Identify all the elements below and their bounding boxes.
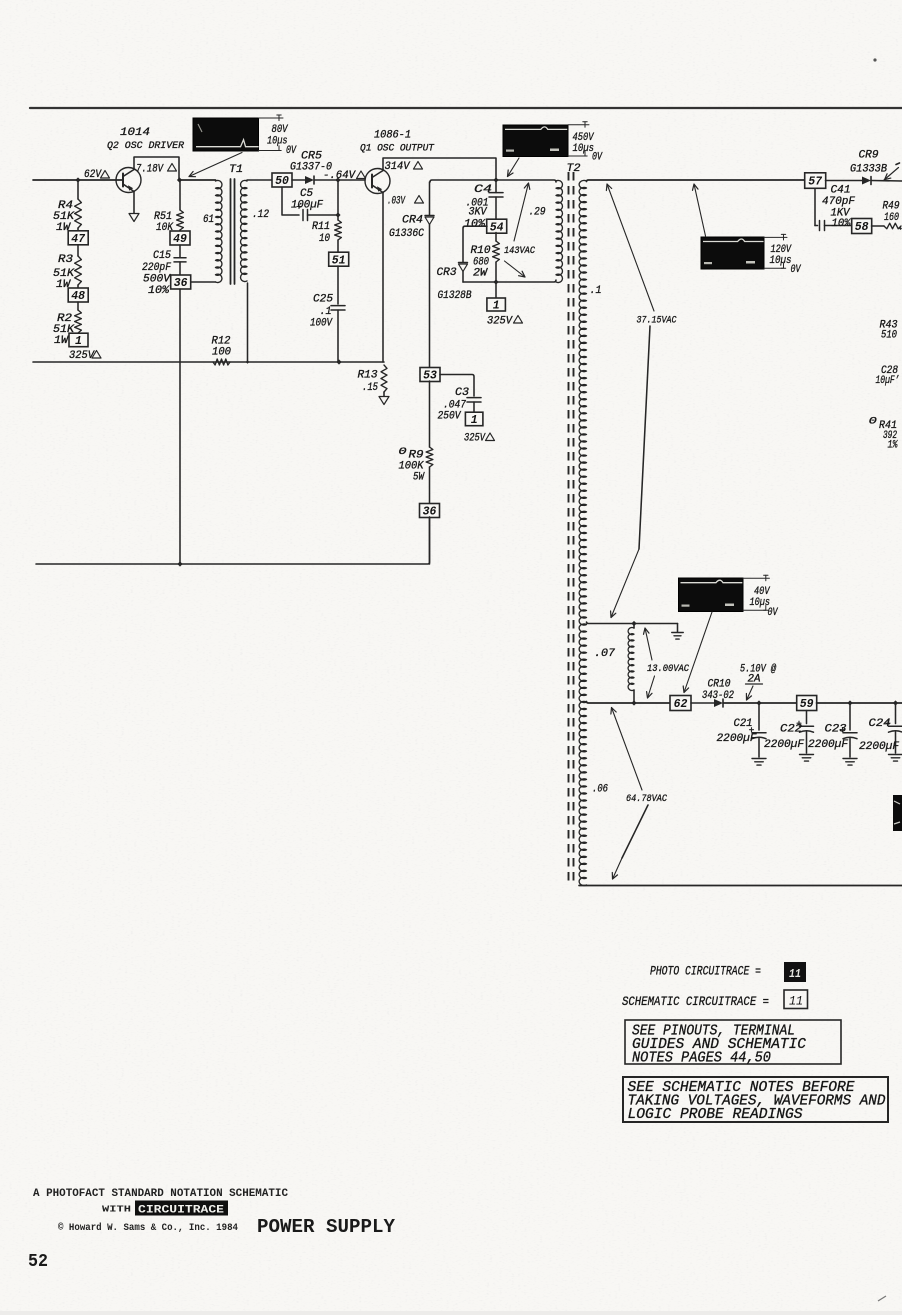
ground	[800, 754, 814, 756]
note box SEE PINOUTS	[625, 1020, 841, 1064]
junction node	[177, 177, 182, 182]
wire to T1 primary bottom	[191, 281, 216, 283]
svg-text:2200µF: 2200µF	[859, 741, 899, 753]
svg-text:500V: 500V	[143, 274, 171, 286]
junction node	[631, 700, 636, 705]
svg-text:80V: 80V	[272, 124, 289, 136]
svg-text:62V: 62V	[84, 169, 102, 181]
svg-text:CR10: CR10	[708, 679, 731, 691]
svg-text:PHOTO CIRCUITRACE =: PHOTO CIRCUITRACE =	[650, 964, 761, 979]
svg-text:C41: C41	[831, 185, 851, 197]
wire	[292, 179, 305, 181]
circuitrace 1 (325V net)	[465, 412, 483, 426]
ground	[889, 754, 902, 756]
svg-text:48: 48	[71, 290, 85, 303]
svg-text:220pF: 220pF	[142, 262, 171, 274]
svg-text:A PHOTOFACT STANDARD NOTATION: A PHOTOFACT STANDARD NOTATION SCHEMATIC	[33, 1188, 289, 1200]
resistor R2 51K 1W	[53, 302, 81, 347]
wire Q1 collector loop with 314V label	[383, 158, 496, 180]
svg-text:Θ: Θ	[869, 416, 878, 428]
svg-text:10%: 10%	[148, 285, 170, 297]
svg-text:CIRCUITRACE: CIRCUITRACE	[138, 1205, 224, 1217]
svg-text:59: 59	[800, 698, 814, 711]
svg-text:58: 58	[855, 221, 869, 234]
svg-text:10: 10	[319, 233, 330, 245]
svg-text:10%: 10%	[464, 219, 486, 231]
svg-text:314V: 314V	[385, 161, 411, 173]
wire down to lower bus	[429, 517, 431, 564]
wire	[691, 702, 714, 704]
svg-text:C5: C5	[300, 188, 313, 200]
svg-text:C3: C3	[455, 387, 469, 399]
capacitor C4 .001 3KV 10%	[464, 180, 503, 231]
circuitrace 53	[420, 368, 440, 382]
photo circuitrace black box 11	[784, 962, 806, 982]
diode CR5 G1337-0	[290, 151, 332, 185]
wire T2 secondary bottom	[579, 885, 902, 887]
svg-text:10µs: 10µs	[573, 143, 595, 155]
resistor R11 10	[312, 180, 341, 253]
svg-text:.12: .12	[252, 209, 269, 221]
capacitor C41 470pF 1KV 10%	[815, 185, 855, 231]
wire	[179, 179, 216, 181]
pointer 143VAC to winding top	[514, 183, 529, 241]
svg-text:62: 62	[674, 698, 688, 711]
capacitor C5 100µF	[282, 188, 338, 221]
svg-text:49: 49	[173, 233, 187, 246]
resistor R4 51K 1W	[53, 180, 81, 234]
svg-text:37.15VAC: 37.15VAC	[637, 315, 678, 327]
schematic circuitrace box 11	[784, 990, 808, 1009]
svg-text:47: 47	[71, 233, 86, 246]
svg-text:C24: C24	[869, 718, 891, 730]
circuitrace 59	[797, 696, 817, 711]
note box SEE SCHEMATIC NOTES	[623, 1077, 888, 1122]
resistor R12 100 (in bus)	[212, 336, 232, 366]
diode CR4 G1336C	[389, 182, 434, 368]
node 62V	[75, 177, 80, 182]
svg-text:1: 1	[493, 300, 500, 313]
off-page arrow into CR9 wire	[884, 163, 900, 180]
svg-text:SCHEMATIC CIRCUITRACE =: SCHEMATIC CIRCUITRACE =	[622, 994, 769, 1009]
svg-text:1%: 1%	[888, 440, 899, 452]
wire 5V tap	[587, 702, 671, 704]
pointer 64.78VAC up	[612, 708, 643, 791]
svg-text:10%: 10%	[832, 218, 852, 230]
wire	[872, 180, 902, 183]
pointer from 120V photo to T2 output wire	[694, 184, 706, 236]
wire T1 secondary top to circuitrace 50	[247, 179, 272, 181]
capacitor C21 2200µF	[717, 703, 767, 757]
svg-text:.1: .1	[590, 285, 602, 297]
svg-text:Q1 OSC OUTPUT: Q1 OSC OUTPUT	[360, 143, 435, 155]
junction node	[847, 700, 852, 705]
wire Q1 emitter down to bus with .03V label	[383, 193, 424, 363]
circuitrace 54	[487, 219, 507, 233]
svg-text:51: 51	[332, 254, 346, 267]
svg-text:160: 160	[884, 212, 899, 224]
svg-text:57: 57	[808, 176, 823, 189]
bus wire 325V rail	[33, 361, 384, 363]
svg-text:CR4: CR4	[402, 215, 423, 227]
svg-text:343-02: 343-02	[702, 690, 734, 702]
svg-text:100V: 100V	[310, 318, 333, 330]
junction node	[335, 212, 340, 217]
resistor R51 10K	[154, 180, 183, 234]
svg-text:.07: .07	[594, 648, 615, 660]
svg-text:.06: .06	[592, 784, 608, 796]
svg-text:0V: 0V	[592, 152, 603, 164]
svg-text:NOTES PAGES 44,50: NOTES PAGES 44,50	[632, 1051, 771, 1067]
circuitrace 1 (325V net)	[69, 333, 88, 347]
svg-text:10µs: 10µs	[267, 136, 288, 148]
circuitrace 36	[171, 275, 191, 289]
circuitrace 36	[420, 504, 440, 518]
inductor filament winding	[628, 624, 634, 704]
diode CR9 G1333B	[850, 150, 887, 185]
svg-text:2200µF: 2200µF	[717, 733, 757, 745]
svg-text:C23: C23	[825, 724, 847, 736]
svg-text:Q2 OSC DRIVER: Q2 OSC DRIVER	[107, 140, 185, 152]
diode CR10 343-02	[702, 679, 734, 708]
wire T2 secondary top output	[587, 180, 806, 182]
pointer 37.15VAC to top	[607, 184, 654, 311]
capacitor C3 .047 250V	[438, 375, 482, 423]
waveform photo at Q2 drive (80V)	[193, 118, 259, 151]
svg-text:2200µF: 2200µF	[808, 739, 848, 751]
svg-text:3KV: 3KV	[469, 207, 488, 219]
wire Q2 collector loop with 7.18V label	[134, 157, 179, 180]
resistor R49 160	[872, 201, 902, 231]
svg-text:0V: 0V	[286, 145, 297, 157]
svg-text:52: 52	[28, 1252, 48, 1272]
wire T1 secondary bottom down to bus	[247, 283, 249, 362]
circuitrace 57	[805, 173, 826, 189]
circuitrace 58	[852, 219, 872, 234]
svg-text:G1328B: G1328B	[438, 290, 472, 302]
bus wire lower	[36, 517, 430, 564]
junction node	[893, 700, 898, 705]
ground	[672, 624, 684, 640]
wire bottom of snubber block	[463, 280, 556, 282]
svg-text:CR9: CR9	[859, 150, 879, 162]
wire	[495, 282, 497, 298]
circuitrace 47	[68, 231, 88, 245]
junction node	[177, 561, 182, 566]
svg-text:1014: 1014	[120, 127, 150, 139]
waveform photo on T2 output (120V)	[701, 237, 764, 269]
transformer T2 core	[568, 172, 570, 886]
svg-text:64.78VAC: 64.78VAC	[626, 793, 668, 805]
pointer 13.00VAC up	[645, 628, 652, 660]
svg-text:50: 50	[275, 175, 289, 188]
circuitrace 49	[170, 231, 190, 245]
svg-text:2W: 2W	[473, 268, 488, 280]
ground	[843, 758, 857, 760]
circuitrace 1 (325V net)	[487, 298, 506, 311]
page top rule	[30, 107, 902, 109]
svg-text:510: 510	[881, 330, 897, 342]
svg-text:G1333B: G1333B	[850, 164, 887, 176]
resistor R10 680 2W	[471, 233, 500, 283]
svg-text:G1336C: G1336C	[389, 228, 424, 240]
junction node	[756, 700, 761, 705]
wire 13V tap	[587, 622, 678, 624]
svg-text:7.18V: 7.18V	[136, 164, 164, 176]
wire top of snubber block	[430, 180, 556, 182]
capacitor C24 2200µF	[859, 703, 902, 753]
svg-text:325V: 325V	[69, 350, 95, 362]
resistor R13 .15	[358, 365, 388, 396]
svg-text:2200µF: 2200µF	[764, 739, 804, 751]
svg-text:LOGIC PROBE READINGS: LOGIC PROBE READINGS	[628, 1107, 803, 1123]
svg-text:POWER SUPPLY: POWER SUPPLY	[257, 1216, 396, 1238]
pointer 64.78VAC down	[622, 805, 648, 858]
circuitrace 48	[68, 288, 88, 302]
svg-text:100µF: 100µF	[291, 200, 323, 212]
svg-text:C21: C21	[734, 718, 753, 730]
diode CR3 G1328B	[437, 226, 488, 302]
svg-text:Θ: Θ	[399, 446, 408, 458]
transistor Q1 OSC OUTPUT 1086-1	[360, 130, 435, 194]
svg-text:325V: 325V	[464, 433, 486, 445]
junction node	[631, 621, 636, 626]
wire Q2 emitter to off-page arrow	[129, 192, 139, 222]
ground	[752, 758, 766, 760]
circuitrace 62	[670, 696, 691, 711]
svg-text:.29: .29	[529, 207, 546, 219]
pointer from 80V photo to Q2 collector node	[189, 153, 242, 177]
svg-text:11: 11	[789, 967, 801, 981]
partial waveform photo at right page edge	[893, 795, 902, 831]
svg-text:1: 1	[75, 335, 82, 348]
svg-text:© Howard W. Sams & Co., Inc. 1: © Howard W. Sams & Co., Inc. 1984	[58, 1222, 238, 1234]
capacitor C22 2200µF	[764, 711, 814, 754]
svg-text:R10: R10	[471, 245, 491, 257]
capacitor C25 .1 100V	[310, 266, 345, 362]
svg-text:0V: 0V	[768, 607, 779, 619]
waveform photo at rectifier (40V)	[679, 578, 744, 612]
pointer 13.00VAC down	[648, 676, 655, 698]
junction node	[335, 177, 340, 182]
svg-text:.15: .15	[362, 382, 378, 394]
wire	[33, 179, 123, 181]
svg-text:.1: .1	[320, 306, 332, 318]
wire with -.64V label	[315, 170, 366, 182]
wire	[817, 702, 902, 704]
svg-text:36: 36	[174, 277, 188, 290]
wire R51 chain down to bus	[179, 289, 181, 564]
circuitrace 51	[329, 252, 349, 266]
junction node	[246, 360, 250, 364]
svg-text:T1: T1	[229, 164, 243, 176]
svg-text:C4: C4	[474, 184, 492, 196]
capacitor C15 220pF 500V 10%	[142, 245, 186, 297]
svg-text:R49: R49	[883, 201, 900, 213]
capacitor C23 2200µF	[808, 703, 857, 757]
waveform scale 40V 10µs 0V	[743, 577, 769, 579]
svg-text:5W: 5W	[413, 472, 425, 484]
transformer T1	[203, 164, 269, 284]
transistor Q2 OSC DRIVER 1014	[107, 127, 185, 193]
svg-text:325V: 325V	[487, 316, 513, 328]
label 5.10V @ 2A	[740, 664, 776, 686]
svg-text:WITH: WITH	[102, 1204, 131, 1215]
svg-text:11: 11	[789, 994, 803, 1009]
svg-text:470pF: 470pF	[822, 196, 855, 208]
svg-text:100: 100	[212, 347, 231, 359]
svg-text:250V: 250V	[438, 411, 462, 423]
svg-text:R3: R3	[58, 254, 73, 266]
circuitrace 50	[272, 173, 292, 187]
junction node	[493, 279, 498, 284]
transformer T2 secondary winding	[579, 180, 586, 885]
wire	[724, 702, 798, 704]
svg-text:.03V: .03V	[387, 196, 406, 208]
page bottom edge shading	[0, 1311, 902, 1315]
wire	[826, 180, 863, 182]
svg-text:R11: R11	[312, 221, 330, 233]
svg-text:C25: C25	[313, 294, 333, 306]
svg-text:C15: C15	[153, 250, 171, 262]
transformer T2 primary winding .29	[556, 180, 562, 282]
junction node	[336, 359, 341, 364]
pointer 2A to wire	[747, 686, 754, 700]
junction node	[493, 177, 498, 182]
resistor R9 100K 5W	[399, 381, 433, 504]
svg-text:C22: C22	[780, 724, 802, 736]
svg-text:13.00VAC: 13.00VAC	[647, 663, 690, 675]
svg-text:61: 61	[203, 214, 214, 226]
svg-text:0V: 0V	[791, 264, 802, 276]
svg-text:CR3: CR3	[437, 267, 457, 279]
waveform scale 80V 10µs 0V	[259, 117, 284, 119]
pointer from 40V photo to circuitrace 62	[684, 612, 712, 693]
svg-text:10µs: 10µs	[770, 255, 792, 267]
pointer from 450V photo to wire	[508, 158, 520, 177]
off-page arrow	[379, 397, 389, 405]
waveform photo at Q1 output (450V)	[503, 125, 568, 157]
svg-text:143VAC: 143VAC	[504, 245, 536, 257]
svg-text:1086-1: 1086-1	[374, 130, 411, 142]
resistor R3 51K 1W	[53, 245, 81, 291]
svg-text:10µF’: 10µF’	[876, 375, 900, 387]
svg-text:R13: R13	[358, 370, 378, 382]
svg-text:1W: 1W	[54, 335, 69, 347]
svg-text:1: 1	[471, 414, 478, 427]
pointer 37.15VAC to 13V tap	[639, 326, 650, 549]
waveform scale 450V 10µs 0V	[568, 124, 589, 126]
pointer 143VAC to winding bottom	[505, 261, 526, 277]
waveform scale 120V 10µs 0V	[764, 236, 787, 238]
